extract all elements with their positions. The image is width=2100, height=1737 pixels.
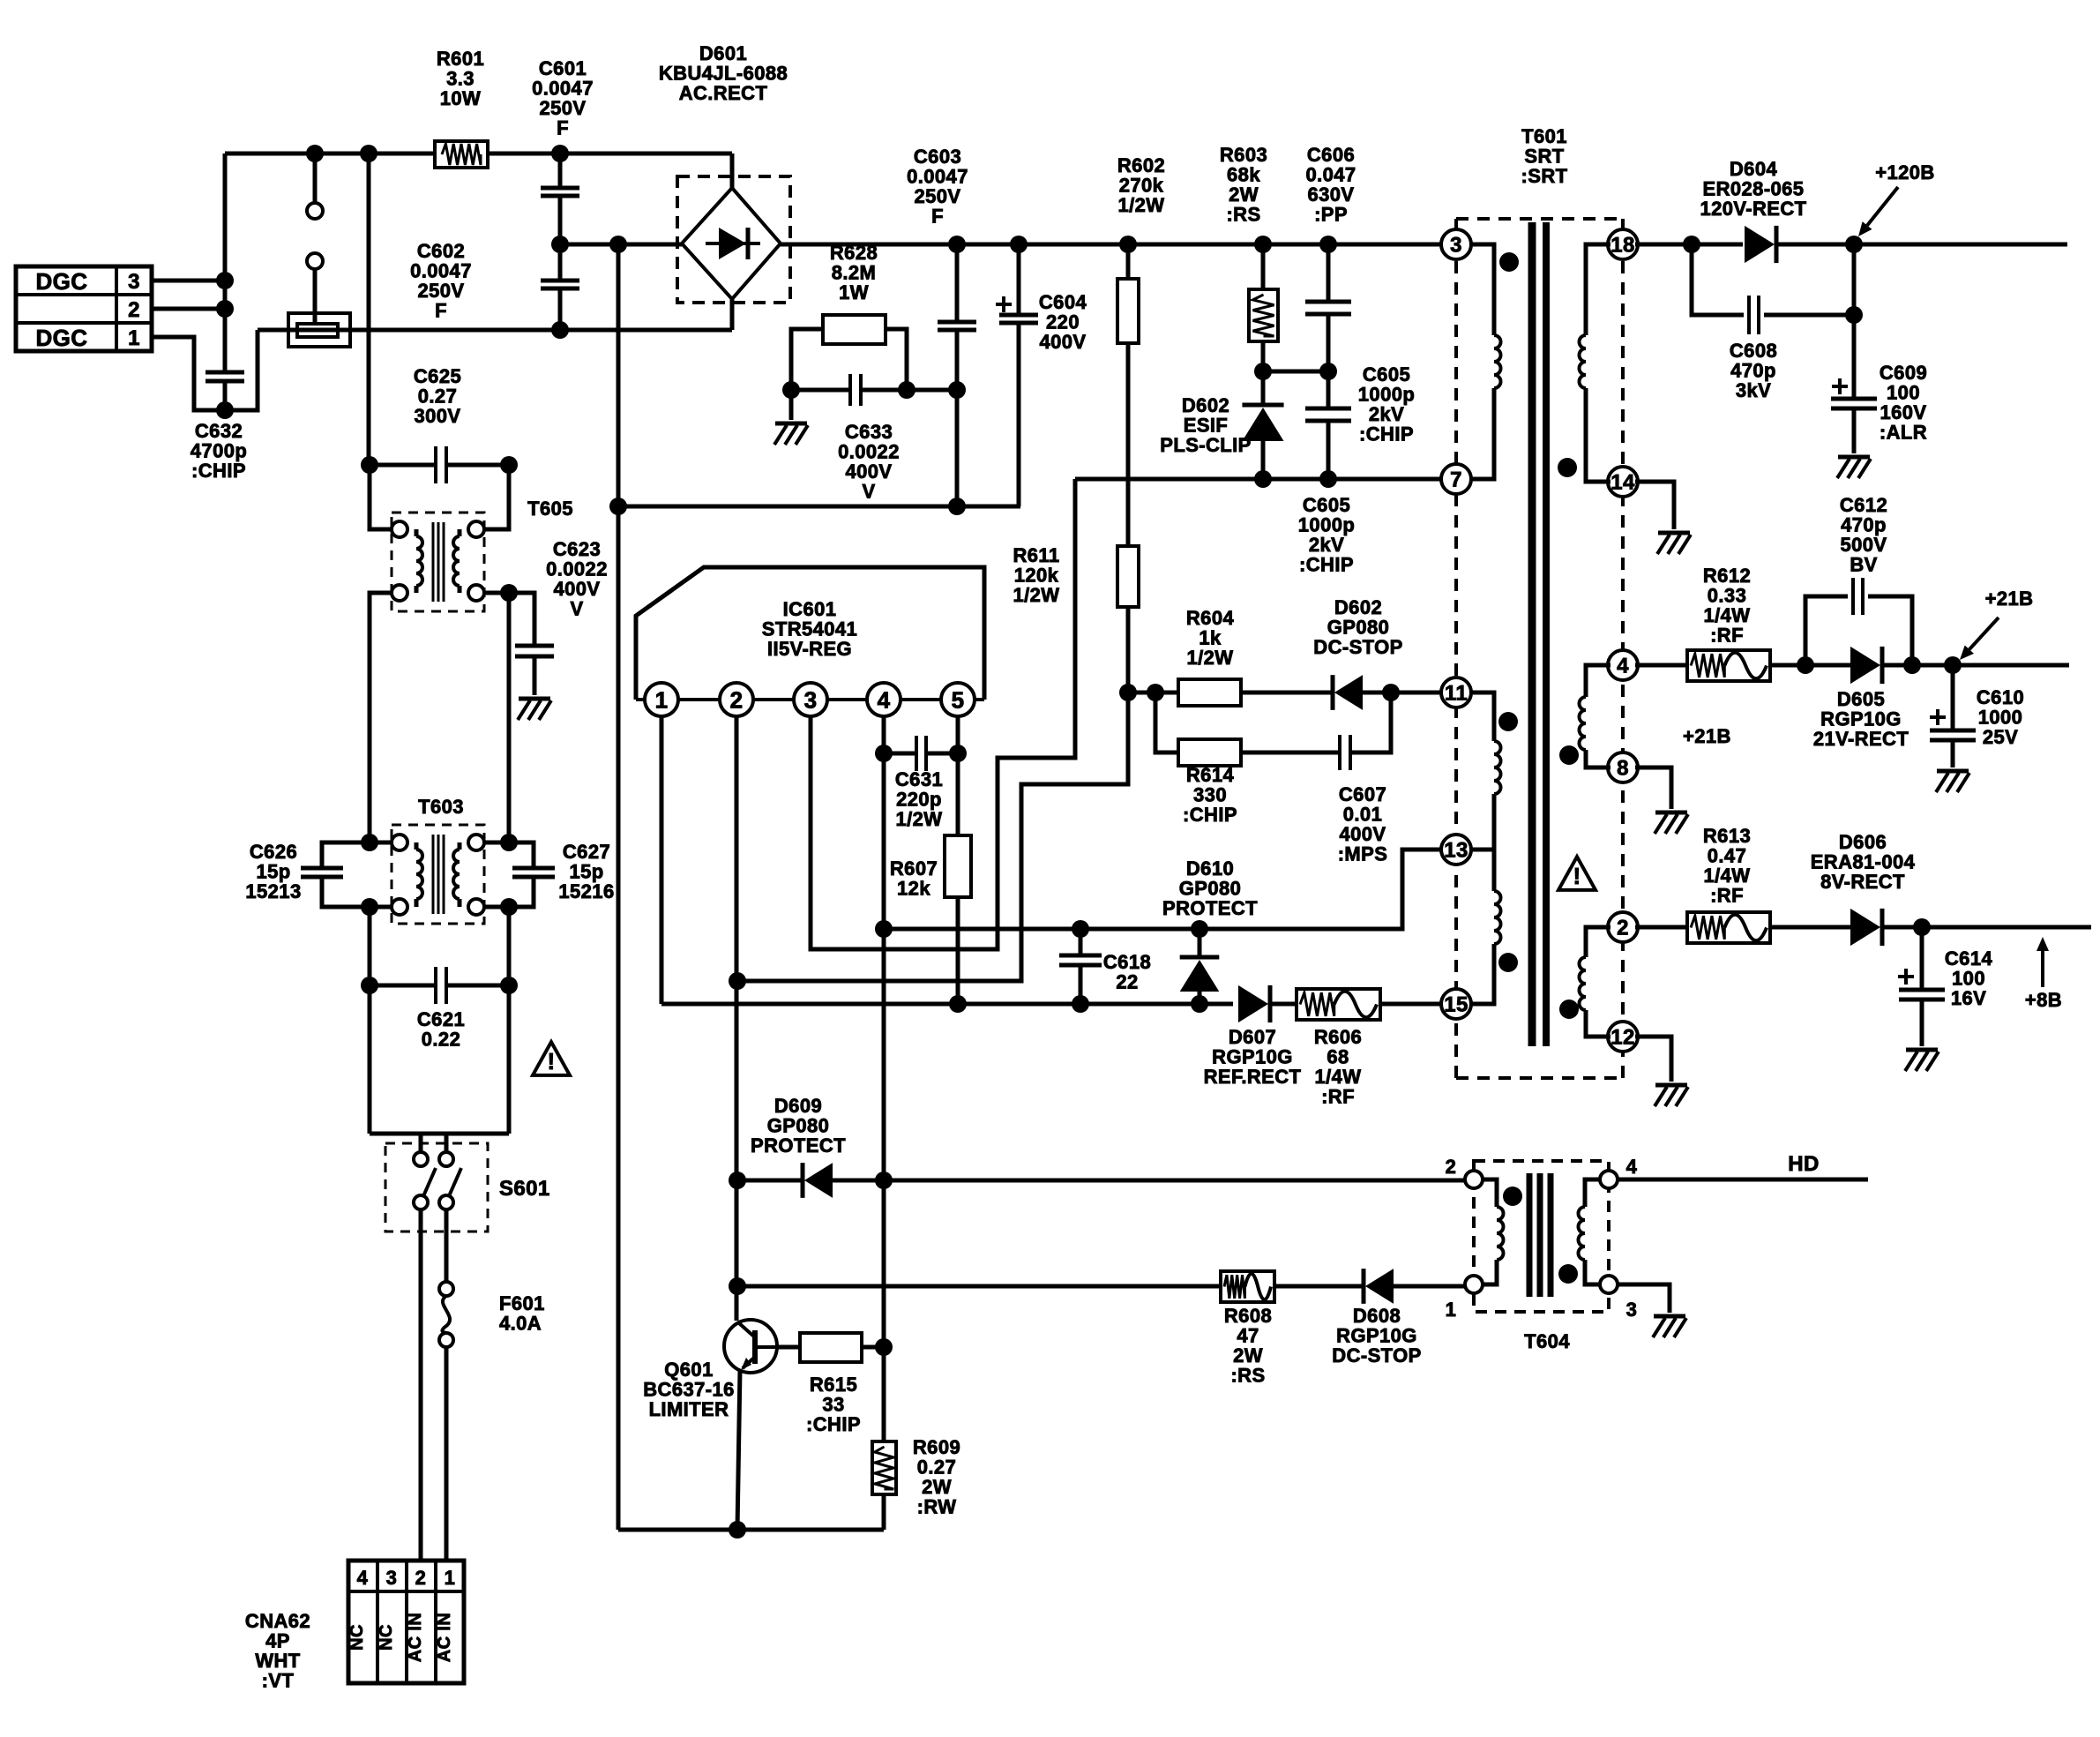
junction C606 top xyxy=(1319,236,1337,253)
wire bottom rail xyxy=(618,1528,884,1532)
junction C621 right xyxy=(500,977,518,994)
svg-text:C626: C626 xyxy=(250,841,297,863)
winding T603 left xyxy=(416,842,422,907)
junction C633 right xyxy=(898,381,915,399)
wire D609 line xyxy=(737,1179,1469,1183)
svg-text:100: 100 xyxy=(1887,382,1920,404)
svg-text:33: 33 xyxy=(822,1394,844,1416)
wire pin3 step xyxy=(811,479,1075,949)
svg-text:2W: 2W xyxy=(922,1476,952,1498)
node +21B xyxy=(1944,656,1962,674)
label IC601 xyxy=(762,598,857,660)
svg-text:C602: C602 xyxy=(417,240,465,262)
winding T603 right xyxy=(453,842,460,907)
junction D610 top xyxy=(1191,920,1208,938)
label R614 xyxy=(1183,764,1237,826)
svg-text:400V: 400V xyxy=(1040,331,1087,353)
winding T601 primary 13-15 xyxy=(1469,850,1501,1004)
svg-text:R604: R604 xyxy=(1186,607,1235,629)
pin T605 tl xyxy=(370,465,407,537)
svg-text:F: F xyxy=(435,300,447,322)
svg-text:D607: D607 xyxy=(1229,1026,1276,1048)
capacitor C610 electrolytic xyxy=(1930,665,1976,767)
warning triangle left xyxy=(533,1042,570,1075)
svg-text::RS: :RS xyxy=(1226,204,1260,226)
svg-text:D609: D609 xyxy=(774,1095,822,1117)
op-amp U IC601 outline xyxy=(636,567,984,700)
svg-text::RF: :RF xyxy=(1710,625,1744,647)
junction clamp mid right xyxy=(1319,363,1337,380)
rectifier D601 dashed box xyxy=(677,176,790,303)
label R602 xyxy=(1117,154,1165,216)
label D607 xyxy=(1204,1026,1302,1088)
svg-text:R608: R608 xyxy=(1224,1305,1272,1327)
pin T603 tr xyxy=(468,835,509,850)
resistor R602 xyxy=(1117,244,1139,546)
diode D608 xyxy=(1364,1269,1394,1304)
winding T601 sec 2-12 xyxy=(1580,927,1610,1037)
capacitor C633 xyxy=(850,374,861,406)
svg-text:120V-RECT: 120V-RECT xyxy=(1700,198,1807,220)
junction bottom at R607 xyxy=(949,995,967,1013)
capacitor C603 xyxy=(938,244,976,506)
svg-text:R613: R613 xyxy=(1703,825,1751,847)
wire Q601 emitter xyxy=(737,1370,740,1530)
svg-text:R602: R602 xyxy=(1117,154,1165,176)
svg-text:68: 68 xyxy=(1327,1046,1349,1068)
svg-text:R606: R606 xyxy=(1314,1026,1362,1048)
wire +120B rail xyxy=(1776,243,2067,247)
svg-text:1: 1 xyxy=(655,686,669,713)
svg-text:D601: D601 xyxy=(699,42,747,64)
junction pin7 line at D602 xyxy=(1254,470,1272,488)
svg-text:GP080: GP080 xyxy=(1179,878,1242,900)
wire HD line xyxy=(1618,1178,1868,1182)
svg-text:D605: D605 xyxy=(1837,688,1885,710)
resistor R606 xyxy=(1297,989,1444,1020)
svg-text:4.0A: 4.0A xyxy=(499,1313,542,1335)
svg-text:D602: D602 xyxy=(1182,394,1229,416)
label S601 xyxy=(499,1177,550,1201)
svg-text:DC-STOP: DC-STOP xyxy=(1332,1344,1421,1366)
svg-text:V: V xyxy=(862,481,875,503)
label D602 clamp xyxy=(1160,394,1251,456)
wire F601 down xyxy=(445,1347,449,1560)
ground pin8 xyxy=(1635,767,1688,834)
svg-text:F: F xyxy=(931,206,944,228)
diode D602 clamp xyxy=(1242,371,1283,479)
svg-text:BV: BV xyxy=(1850,554,1877,576)
diode D610 xyxy=(1180,929,1220,1004)
svg-text:4: 4 xyxy=(357,1567,369,1589)
junction C601 top xyxy=(551,145,569,162)
wire +8B arrow xyxy=(2036,937,2049,987)
label R611 xyxy=(1013,544,1060,606)
junction clamp mid left xyxy=(1254,363,1272,380)
label C632 xyxy=(191,420,247,482)
svg-text:1W: 1W xyxy=(839,281,869,303)
junction C633 left xyxy=(782,381,800,399)
label R612 xyxy=(1703,565,1751,647)
svg-text:PLS-CLIP: PLS-CLIP xyxy=(1160,434,1251,456)
svg-text:GP080: GP080 xyxy=(767,1115,830,1137)
transformer T603 core xyxy=(433,835,444,914)
ground C609 xyxy=(1837,457,1871,478)
svg-text:300V: 300V xyxy=(415,405,461,427)
label D608 xyxy=(1332,1305,1421,1366)
label D602 dcstop xyxy=(1313,596,1402,658)
svg-text:PROTECT: PROTECT xyxy=(751,1134,846,1157)
wire PROTECT line xyxy=(884,850,1444,929)
label CNA62 xyxy=(245,1610,310,1692)
switch degauss contacts xyxy=(307,203,323,324)
label R628 xyxy=(830,242,878,303)
svg-text:DGC: DGC xyxy=(36,268,88,295)
wire pin2 down xyxy=(735,716,739,1321)
svg-text:330: 330 xyxy=(1193,784,1227,806)
label C606 xyxy=(1305,144,1356,226)
label +8B xyxy=(2025,989,2062,1011)
svg-text:C601: C601 xyxy=(539,57,587,79)
svg-text:4: 4 xyxy=(1617,655,1629,678)
svg-text:R609: R609 xyxy=(913,1436,960,1458)
svg-text:0.0022: 0.0022 xyxy=(546,558,608,580)
label C612 xyxy=(1840,494,1887,576)
wire R608 line left xyxy=(737,1284,1221,1289)
diode D604 xyxy=(1745,226,1776,263)
node phase dot p3 xyxy=(1498,953,1518,972)
svg-text:2kV: 2kV xyxy=(1369,403,1404,425)
junction C631 left xyxy=(875,745,893,762)
wire bridge top feed xyxy=(730,153,735,188)
svg-text:1/2W: 1/2W xyxy=(1013,584,1060,606)
label C618 xyxy=(1103,951,1151,993)
wire pin4 to R612 xyxy=(1635,663,1687,668)
junction C612 right xyxy=(1903,656,1921,674)
wire main B+ rail xyxy=(781,243,1444,247)
label F601 xyxy=(499,1292,545,1335)
junction C623 tap xyxy=(500,584,518,602)
wire bridge AC input left xyxy=(560,243,682,247)
svg-text:V: V xyxy=(570,598,583,620)
capacitor C632 xyxy=(206,372,244,381)
svg-text:1: 1 xyxy=(1446,1299,1457,1321)
svg-text:2: 2 xyxy=(730,686,744,713)
svg-text:R612: R612 xyxy=(1703,565,1751,587)
svg-text::MPS: :MPS xyxy=(1338,843,1388,865)
label C601 xyxy=(532,57,594,139)
capacitor C626 xyxy=(301,842,370,907)
wire left AC drop from DGC corner xyxy=(223,153,228,372)
label T603 xyxy=(418,796,464,818)
label C605 lower xyxy=(1298,494,1355,576)
svg-text:T604: T604 xyxy=(1524,1330,1570,1352)
node +120B xyxy=(1845,236,1863,253)
pin T601-11 xyxy=(1441,678,1471,708)
svg-text:18: 18 xyxy=(1610,234,1635,258)
wire C632 bottom U xyxy=(225,330,258,410)
pin T601-14 xyxy=(1608,467,1638,497)
svg-text:T603: T603 xyxy=(418,796,464,818)
svg-text::PP: :PP xyxy=(1314,204,1348,226)
svg-text:13: 13 xyxy=(1444,839,1469,863)
wire pin1 down xyxy=(660,716,664,1004)
svg-text:WHT: WHT xyxy=(255,1650,300,1672)
diode D607 xyxy=(1238,985,1297,1022)
pin T604-3 xyxy=(1600,1276,1637,1321)
svg-text:4: 4 xyxy=(1626,1156,1638,1178)
svg-text:250V: 250V xyxy=(418,280,465,302)
svg-text:PROTECT: PROTECT xyxy=(1162,897,1258,919)
winding T604 right xyxy=(1579,1179,1601,1284)
wire clamp mid xyxy=(1263,370,1328,374)
svg-text:5: 5 xyxy=(952,686,965,713)
label R608 xyxy=(1224,1305,1272,1387)
pin T603 tl xyxy=(370,835,407,850)
label D606 xyxy=(1811,831,1916,893)
svg-text:RGP10G: RGP10G xyxy=(1212,1046,1293,1068)
label C623 xyxy=(546,538,608,620)
svg-text:2: 2 xyxy=(1446,1156,1457,1178)
svg-text:1/4W: 1/4W xyxy=(1704,604,1751,626)
svg-text:AC IN: AC IN xyxy=(406,1613,425,1662)
junction C632 bottom xyxy=(216,401,234,419)
node phase dot s2 xyxy=(1559,745,1579,765)
svg-text:NC: NC xyxy=(377,1624,396,1651)
label D601 xyxy=(659,42,788,104)
junction bottom at D610 xyxy=(1191,995,1208,1013)
junction C612 left xyxy=(1797,656,1814,674)
resistor R611 xyxy=(1117,546,1139,607)
junction bottom rail emitter xyxy=(729,1521,746,1539)
resistor R604 xyxy=(1178,679,1241,706)
wire DGC pin 2 xyxy=(152,307,225,311)
svg-text:+8B: +8B xyxy=(2025,989,2062,1011)
label R615 xyxy=(806,1374,861,1435)
switch degauss stem top xyxy=(313,153,318,203)
svg-text:10W: 10W xyxy=(440,87,481,109)
svg-text:ESIF: ESIF xyxy=(1184,415,1229,437)
svg-text:S601: S601 xyxy=(499,1177,550,1201)
svg-text:C625: C625 xyxy=(414,365,461,387)
wire C633 row xyxy=(791,388,957,393)
svg-text:16V: 16V xyxy=(1951,987,1986,1009)
label R607 xyxy=(890,857,938,900)
pin T601-3 xyxy=(1441,229,1471,259)
wire DGC pin 1 xyxy=(152,337,225,410)
pin T604-1 xyxy=(1446,1276,1483,1321)
wire R613 to D606 xyxy=(1770,925,1850,930)
svg-text:F601: F601 xyxy=(499,1292,545,1314)
warning triangle T601 xyxy=(1558,857,1596,890)
svg-text:RGP10G: RGP10G xyxy=(1336,1325,1417,1347)
svg-text:470p: 470p xyxy=(1730,360,1776,382)
svg-text:0.0022: 0.0022 xyxy=(838,441,900,463)
wire +120B arrow xyxy=(1858,187,1898,236)
wire bottom signal line xyxy=(661,1002,1233,1007)
pin T601-12 xyxy=(1608,1022,1638,1052)
label T604 xyxy=(1524,1330,1570,1352)
svg-text:2: 2 xyxy=(128,298,140,322)
junction C621 left xyxy=(361,977,378,994)
capacitor C608 xyxy=(1692,244,1854,334)
resistor R628 xyxy=(823,315,886,344)
svg-text:R607: R607 xyxy=(890,857,938,880)
pin T601-18 xyxy=(1608,229,1638,259)
node +8B junction xyxy=(1913,918,1931,936)
svg-text:D604: D604 xyxy=(1730,158,1778,180)
svg-text::CHIP: :CHIP xyxy=(806,1413,861,1435)
junction T603 br xyxy=(500,898,518,916)
label C604 xyxy=(1039,291,1087,353)
svg-text:250V: 250V xyxy=(915,185,961,207)
junction pin7 line at C605 xyxy=(1319,470,1337,488)
connector CNA62 box xyxy=(348,1561,464,1683)
svg-text:15p: 15p xyxy=(256,861,290,883)
svg-text:8: 8 xyxy=(1617,757,1629,781)
pin T603 br xyxy=(468,899,509,915)
diode D606 xyxy=(1850,909,1882,946)
label C608 xyxy=(1730,340,1777,401)
wire S601 stub left xyxy=(419,1134,423,1151)
label D609 xyxy=(751,1095,846,1157)
wire C609 drop xyxy=(1852,244,1857,399)
svg-text:Q601: Q601 xyxy=(664,1359,713,1381)
wire R612 to D605 xyxy=(1770,663,1850,668)
capacitor C627 xyxy=(509,842,555,907)
capacitor C607 xyxy=(1241,693,1391,770)
pin IC601-5 xyxy=(941,683,975,716)
svg-text:2: 2 xyxy=(1617,917,1629,940)
capacitor C602 xyxy=(541,244,579,330)
capacitor C618 xyxy=(1059,929,1102,1004)
label C633 xyxy=(838,421,900,503)
svg-text:8V-RECT: 8V-RECT xyxy=(1820,871,1905,893)
svg-text:C605: C605 xyxy=(1363,363,1410,386)
junction C618 top xyxy=(1072,920,1089,938)
svg-text:160V: 160V xyxy=(1880,401,1927,423)
svg-text:1000: 1000 xyxy=(1978,707,2023,729)
svg-text::RF: :RF xyxy=(1321,1086,1355,1108)
svg-text:R603: R603 xyxy=(1220,144,1267,166)
junction C602 bottom xyxy=(551,321,569,339)
winding T601 sec 4-8 xyxy=(1580,665,1610,767)
svg-text:!: ! xyxy=(1573,863,1581,889)
diode D609 xyxy=(803,1163,833,1198)
junction DGC pin3 node xyxy=(216,272,234,289)
pin T605 br xyxy=(468,585,509,842)
svg-text:3.3: 3.3 xyxy=(446,68,475,90)
junction R604 left xyxy=(1147,684,1164,701)
pin T603 bl xyxy=(370,899,407,915)
winding T605 left xyxy=(416,529,422,593)
svg-text::SRT: :SRT xyxy=(1521,165,1568,187)
wire AC bottom U xyxy=(370,1132,509,1136)
resistor R609 xyxy=(872,1347,896,1530)
pin IC601-4 xyxy=(867,683,901,716)
svg-text:C609: C609 xyxy=(1880,362,1927,384)
svg-text:3: 3 xyxy=(1626,1299,1638,1321)
svg-text:7: 7 xyxy=(1450,468,1462,492)
svg-text:1/4W: 1/4W xyxy=(1704,865,1751,887)
junction R604 tap xyxy=(1119,684,1137,701)
pin T605 bl xyxy=(370,585,407,842)
svg-text:470p: 470p xyxy=(1841,514,1887,536)
junction low rail x701 xyxy=(609,498,627,515)
wire top AC rail xyxy=(225,152,732,156)
resistor R608 xyxy=(1221,1271,1274,1302)
label +120B xyxy=(1875,161,1934,183)
svg-text:1/2W: 1/2W xyxy=(896,808,943,830)
wire left AC vertical upper xyxy=(367,153,371,465)
transistor Q601 xyxy=(724,1320,777,1373)
wire bridge bottom stub xyxy=(730,299,735,330)
capacitor C601 xyxy=(541,153,579,244)
svg-text:F: F xyxy=(557,117,569,139)
ground T604 pin3 xyxy=(1618,1284,1686,1337)
wire R604 to D602 xyxy=(1241,691,1333,695)
svg-text:0.047: 0.047 xyxy=(1305,164,1356,186)
svg-text:500V: 500V xyxy=(1841,534,1887,556)
svg-text:RGP10G: RGP10G xyxy=(1820,708,1902,730)
junction C603 top xyxy=(948,236,966,253)
winding T601 primary 11-13 xyxy=(1469,693,1501,850)
wire S601 left down xyxy=(419,1209,423,1560)
svg-text:STR54041: STR54041 xyxy=(762,618,857,640)
resistor R601 xyxy=(435,141,488,168)
junction switch top rail xyxy=(306,145,324,162)
wire pin18 to D604 xyxy=(1635,243,1743,247)
svg-text:R601: R601 xyxy=(437,48,484,70)
svg-text:4: 4 xyxy=(878,686,891,713)
wire right AC to C621 xyxy=(507,907,512,1134)
label R601 xyxy=(437,48,484,109)
svg-text:0.27: 0.27 xyxy=(418,386,457,408)
junction C631 right xyxy=(949,745,967,762)
label Q601 xyxy=(643,1359,734,1420)
switch S601 box xyxy=(385,1143,488,1232)
svg-text:T605: T605 xyxy=(527,498,573,520)
wire pin7 line xyxy=(1075,477,1444,482)
diode D602 dcstop xyxy=(1333,675,1363,710)
wire +21B arrow xyxy=(1960,618,1999,660)
transformer T601 core xyxy=(1532,222,1546,1046)
svg-text:15: 15 xyxy=(1444,993,1469,1017)
svg-text:270k: 270k xyxy=(1119,175,1164,197)
svg-text:ER028-065: ER028-065 xyxy=(1703,178,1805,200)
transformer T604 core xyxy=(1529,1173,1551,1297)
pin T601-7 xyxy=(1441,464,1471,494)
label D605 xyxy=(1813,688,1909,750)
svg-text:3: 3 xyxy=(1450,234,1462,258)
wire R614 elbow xyxy=(1155,693,1178,752)
svg-text:2W: 2W xyxy=(1233,1344,1263,1366)
plus C604 xyxy=(996,296,1012,312)
junction T603 tl xyxy=(361,834,378,851)
svg-text::CHIP: :CHIP xyxy=(1299,554,1354,576)
svg-text:CNA62: CNA62 xyxy=(245,1610,310,1632)
pin T605 tr xyxy=(468,465,509,537)
svg-text:400V: 400V xyxy=(1340,823,1386,845)
svg-text:2kV: 2kV xyxy=(1309,534,1344,556)
resistor R603 xyxy=(1249,244,1278,371)
svg-text:12k: 12k xyxy=(897,878,930,900)
junction C633 at C603 xyxy=(948,381,966,399)
label T605 xyxy=(527,498,573,520)
svg-text:0.22: 0.22 xyxy=(422,1029,460,1051)
label C625 xyxy=(414,365,461,427)
svg-text:0.0047: 0.0047 xyxy=(907,166,968,188)
